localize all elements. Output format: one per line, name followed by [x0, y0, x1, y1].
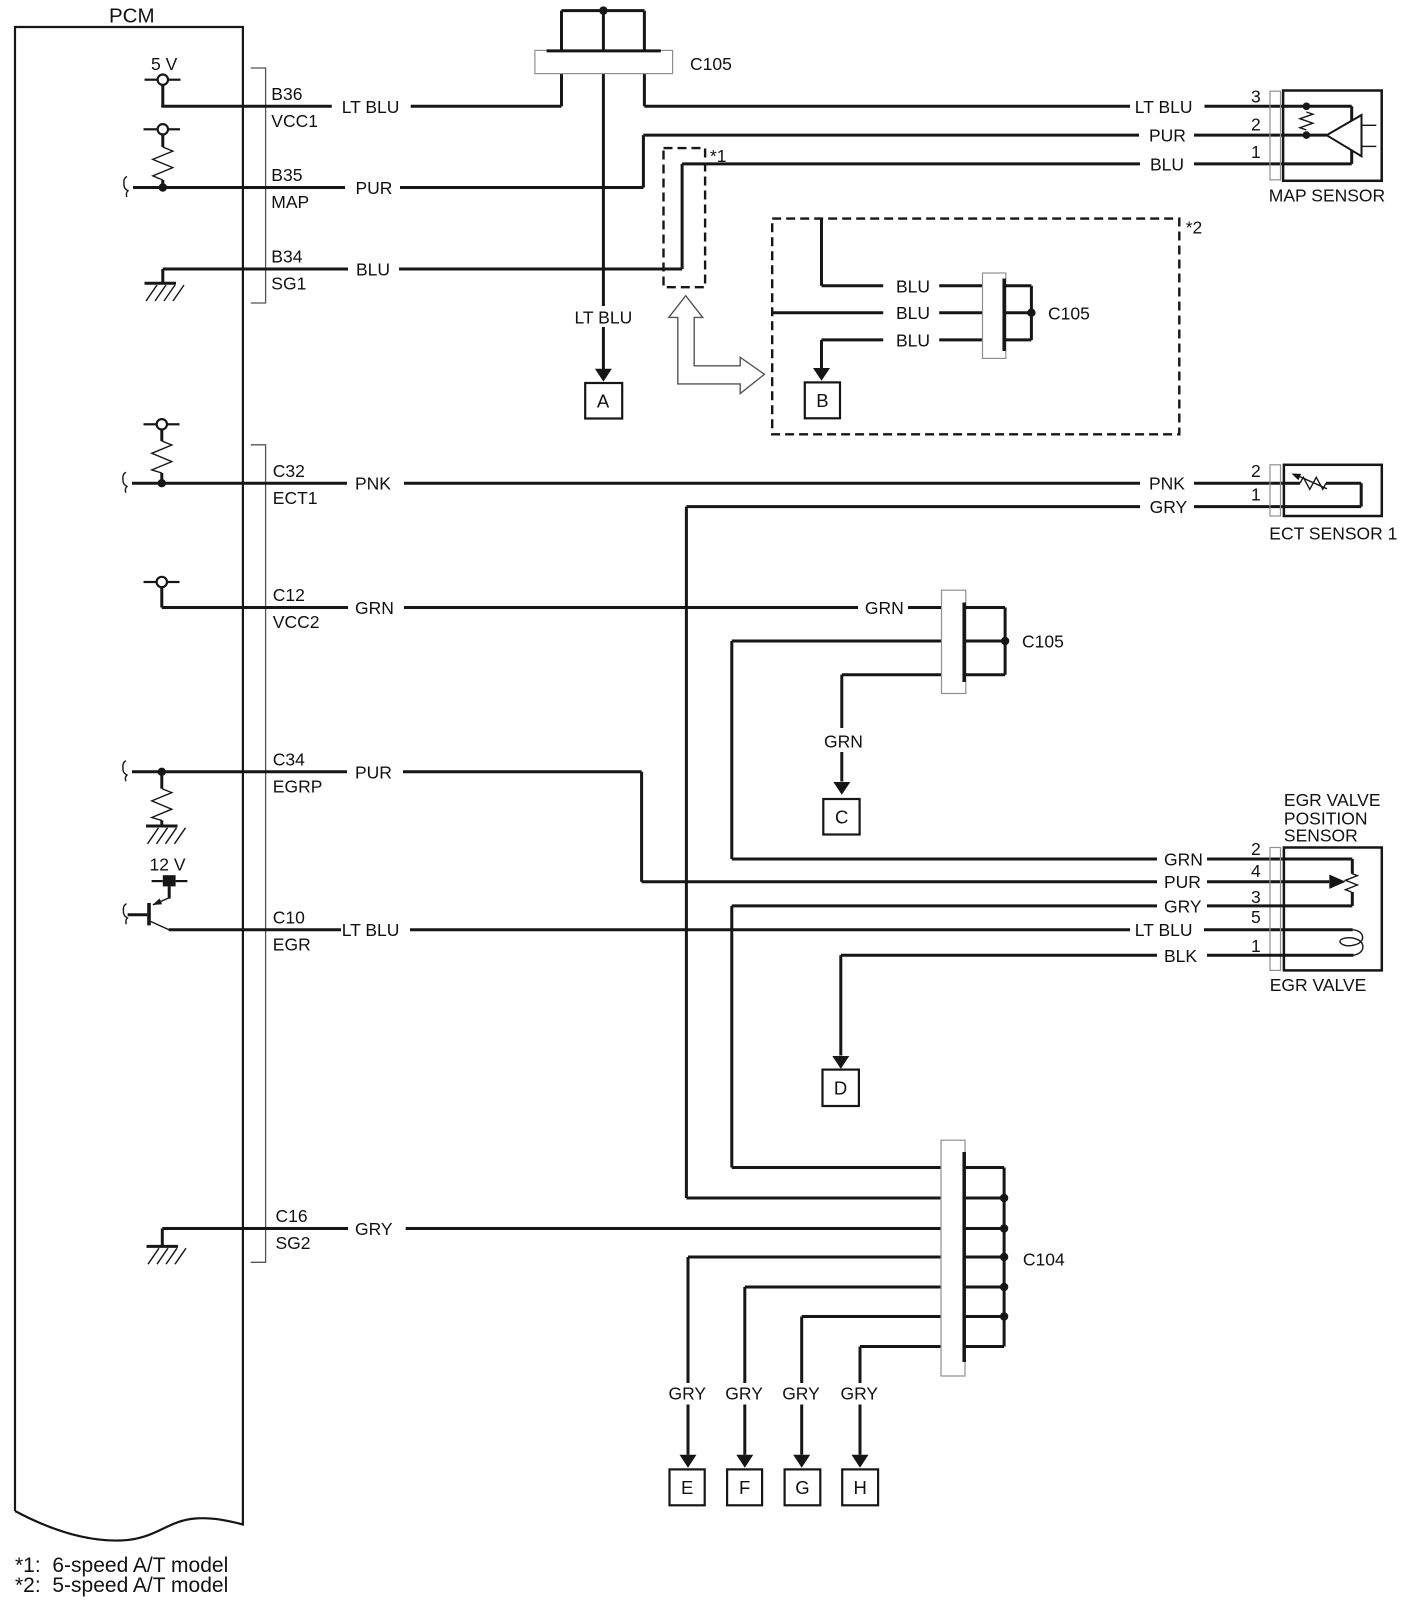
resistor+circle at C32 — [144, 419, 180, 483]
svg-text:EGR VALVE: EGR VALVE — [1284, 790, 1381, 810]
wire GRY from ECT pin1 — [686, 497, 1284, 1198]
junction dot C32 — [158, 479, 166, 487]
connector C104 — [941, 1140, 1065, 1376]
svg-text:EGRP: EGRP — [273, 776, 323, 796]
wire C34 PUR — [132, 762, 642, 782]
wire LT BLU to MAP pin 3 — [644, 97, 1283, 117]
svg-text:1: 1 — [1251, 936, 1261, 956]
svg-text:BLK: BLK — [1164, 946, 1197, 966]
svg-text:LT BLU: LT BLU — [575, 308, 633, 328]
svg-text:C10: C10 — [273, 907, 305, 927]
ground SG1 — [145, 269, 185, 301]
connector bracket B-group — [251, 68, 266, 303]
ECT sensor connector bracket — [1270, 465, 1281, 516]
svg-text:GRY: GRY — [669, 1384, 707, 1404]
svg-text:SG1: SG1 — [271, 274, 306, 294]
wire BLU top (5AT) — [822, 219, 985, 297]
arrow to G — [793, 1455, 810, 1468]
wire C10 LT BLU — [169, 920, 1284, 940]
wire GRN branch to EGR pin2 — [732, 641, 1284, 870]
pin B35 MAP — [271, 165, 309, 212]
dashed box *2 — [772, 218, 1202, 435]
wire GRN branch to C — [818, 675, 966, 782]
svg-text:C: C — [835, 807, 848, 828]
svg-text:GRY: GRY — [1150, 497, 1188, 517]
wire ECT-GRY into C104 — [686, 1197, 966, 1200]
5V supply — [145, 54, 181, 106]
svg-text:*2: *2 — [1186, 218, 1203, 238]
wire C16 GRY — [162, 1219, 966, 1239]
svg-text:GRN: GRN — [824, 732, 863, 752]
junction dot B35 — [159, 183, 167, 191]
dashed box *1 — [664, 146, 727, 287]
svg-text:BLU: BLU — [1150, 154, 1184, 174]
svg-text:1: 1 — [1251, 142, 1261, 162]
wire GRY to G — [802, 1317, 966, 1455]
svg-text:MAP: MAP — [271, 192, 309, 212]
svg-text:3: 3 — [1251, 86, 1261, 106]
pin B36 VCC1 — [271, 84, 318, 131]
label GRY (G) — [781, 1383, 823, 1405]
svg-text:SG2: SG2 — [276, 1233, 311, 1253]
svg-text:PUR: PUR — [1164, 872, 1201, 892]
node B — [805, 382, 840, 418]
svg-text:PUR: PUR — [356, 178, 393, 198]
svg-text:GRY: GRY — [782, 1384, 820, 1404]
wire BLU middle (5AT) — [772, 303, 984, 323]
svg-text:VCC2: VCC2 — [273, 612, 320, 632]
svg-text:PUR: PUR — [1149, 126, 1186, 146]
svg-text:BLU: BLU — [896, 303, 930, 323]
arrow to B — [813, 368, 830, 381]
svg-text:MAP SENSOR: MAP SENSOR — [1269, 186, 1385, 206]
svg-text:LT BLU: LT BLU — [342, 97, 400, 117]
pin C32 ECT1 — [273, 461, 318, 508]
wire LT BLU to A — [571, 306, 636, 328]
svg-text:C105: C105 — [690, 54, 732, 74]
wire GRY to H — [860, 1347, 966, 1455]
svg-text:5 V: 5 V — [151, 54, 178, 74]
pin C12 VCC2 — [273, 585, 320, 632]
svg-text:BLU: BLU — [896, 330, 930, 350]
svg-text:GRN: GRN — [1164, 850, 1203, 870]
svg-text:1: 1 — [1251, 485, 1261, 505]
svg-text:C32: C32 — [273, 461, 305, 481]
wire BLK from EGR pin1 — [841, 946, 1284, 1056]
label GRY (F) — [724, 1383, 766, 1405]
arrow to D — [832, 1056, 849, 1069]
svg-text:PNK: PNK — [1149, 474, 1185, 494]
wire BLU bottom (5AT) — [822, 330, 985, 368]
label GRY (E) — [667, 1383, 709, 1405]
label GRY (H) — [839, 1383, 881, 1405]
arrow to H — [852, 1455, 869, 1468]
squiggle C32 — [123, 472, 127, 493]
svg-text:2: 2 — [1251, 115, 1261, 135]
svg-text:C105: C105 — [1022, 632, 1064, 652]
node H — [842, 1469, 878, 1505]
svg-text:E: E — [681, 1477, 693, 1498]
svg-text:GRY: GRY — [355, 1219, 393, 1239]
squiggle B35 — [124, 177, 128, 198]
svg-text:2: 2 — [1251, 839, 1261, 859]
node G — [785, 1469, 821, 1505]
EGR valve position sensor / EGR valve — [1270, 848, 1382, 996]
EGR connector bracket — [1270, 848, 1281, 971]
ground SG2 — [147, 1229, 187, 1265]
wire B34 BLU — [163, 260, 682, 280]
wire BLU to MAP pin 1 — [682, 154, 1283, 174]
svg-text:C12: C12 — [273, 585, 305, 605]
svg-text:EGR VALVE: EGR VALVE — [1270, 975, 1367, 995]
bent outline arrow — [669, 296, 765, 394]
svg-text:VCC1: VCC1 — [271, 111, 318, 131]
connector C105 middle — [942, 590, 1064, 693]
pin C16 SG2 — [276, 1206, 311, 1253]
wire GRY to F — [745, 1287, 966, 1455]
wire B36 LT BLU — [161, 97, 561, 117]
svg-text:F: F — [739, 1477, 750, 1498]
svg-text:LT BLU: LT BLU — [1135, 97, 1193, 117]
node E — [670, 1469, 705, 1505]
svg-text:5: 5 — [1251, 907, 1261, 927]
wire GRY to E — [688, 1257, 966, 1455]
svg-text:3: 3 — [1251, 887, 1261, 907]
12V supply — [150, 854, 188, 898]
wire PUR to MAP pin 2 — [643, 126, 1283, 188]
svg-text:B35: B35 — [271, 165, 302, 185]
MAP sensor U1 — [1269, 91, 1385, 206]
svg-text:SENSOR: SENSOR — [1284, 826, 1358, 846]
svg-text:B36: B36 — [271, 84, 302, 104]
svg-text:PUR: PUR — [355, 762, 392, 782]
svg-text:GRN: GRN — [865, 598, 904, 618]
wire GRY from EGR pin3 — [732, 896, 1284, 1167]
squiggle C34 — [123, 761, 127, 782]
pin B34 SG1 — [271, 247, 306, 294]
svg-text:BLU: BLU — [356, 260, 390, 280]
svg-text:G: G — [795, 1477, 809, 1498]
node C — [823, 799, 859, 835]
svg-text:2: 2 — [1251, 461, 1261, 481]
EGR valve position sensor label — [1284, 790, 1381, 846]
pin C10 EGR — [273, 907, 311, 954]
ECT sensor 1 — [1269, 465, 1397, 544]
5V supply C12 — [144, 577, 180, 608]
svg-text:GRY: GRY — [725, 1384, 763, 1404]
wire C12 GRN — [162, 598, 966, 618]
svg-text:C104: C104 — [1023, 1250, 1065, 1270]
wire BLU jog (6AT) — [681, 164, 684, 269]
pull-down resistor C34 — [152, 772, 172, 826]
svg-text:H: H — [854, 1477, 867, 1498]
node F — [727, 1469, 762, 1505]
svg-text:LT BLU: LT BLU — [1135, 920, 1193, 940]
svg-text:D: D — [834, 1077, 847, 1098]
PCM box — [15, 5, 243, 1541]
node A — [585, 383, 622, 419]
svg-text:C16: C16 — [276, 1206, 308, 1226]
svg-text:EGR: EGR — [273, 934, 311, 954]
wire PUR to EGR pin4 — [642, 772, 1284, 892]
wire C32 PNK — [132, 474, 1284, 494]
svg-text:ECT1: ECT1 — [273, 488, 318, 508]
svg-text:GRN: GRN — [355, 598, 394, 618]
svg-text:12 V: 12 V — [150, 854, 186, 874]
connector bracket C-group — [251, 445, 266, 1263]
pull-up resistor at B35 — [144, 124, 181, 187]
wire B35 PUR — [133, 178, 643, 198]
arrow to F — [736, 1455, 753, 1468]
arrow to C — [833, 782, 850, 795]
svg-text:C34: C34 — [273, 749, 305, 769]
svg-text:4: 4 — [1251, 861, 1261, 881]
arrow to A — [595, 369, 612, 382]
junction dot C34 — [158, 768, 166, 776]
svg-text:B: B — [816, 390, 828, 411]
svg-text:C105: C105 — [1048, 304, 1090, 324]
arrow to E — [680, 1455, 697, 1468]
MAP sensor connector bracket — [1270, 91, 1281, 180]
svg-text:B34: B34 — [271, 247, 302, 267]
svg-text:BLU: BLU — [896, 276, 930, 296]
ground C34 — [146, 826, 186, 844]
connector C105 (5AT) — [983, 273, 1090, 358]
svg-text:PNK: PNK — [355, 474, 391, 494]
node D — [823, 1070, 859, 1106]
pin C34 EGRP — [273, 749, 323, 796]
squiggle C10 — [123, 904, 127, 925]
svg-text:LT BLU: LT BLU — [342, 920, 400, 940]
svg-text:A: A — [597, 391, 610, 412]
svg-text:GRY: GRY — [1164, 896, 1202, 916]
svg-text:ECT SENSOR 1: ECT SENSOR 1 — [1269, 524, 1397, 544]
svg-text:*2: 5-speed A/T model: *2: 5-speed A/T model — [15, 1574, 228, 1597]
svg-text:GRY: GRY — [841, 1384, 879, 1404]
connector C105 top — [535, 6, 732, 369]
transistor Q1 — [128, 898, 170, 931]
svg-text:PCM: PCM — [109, 5, 155, 28]
